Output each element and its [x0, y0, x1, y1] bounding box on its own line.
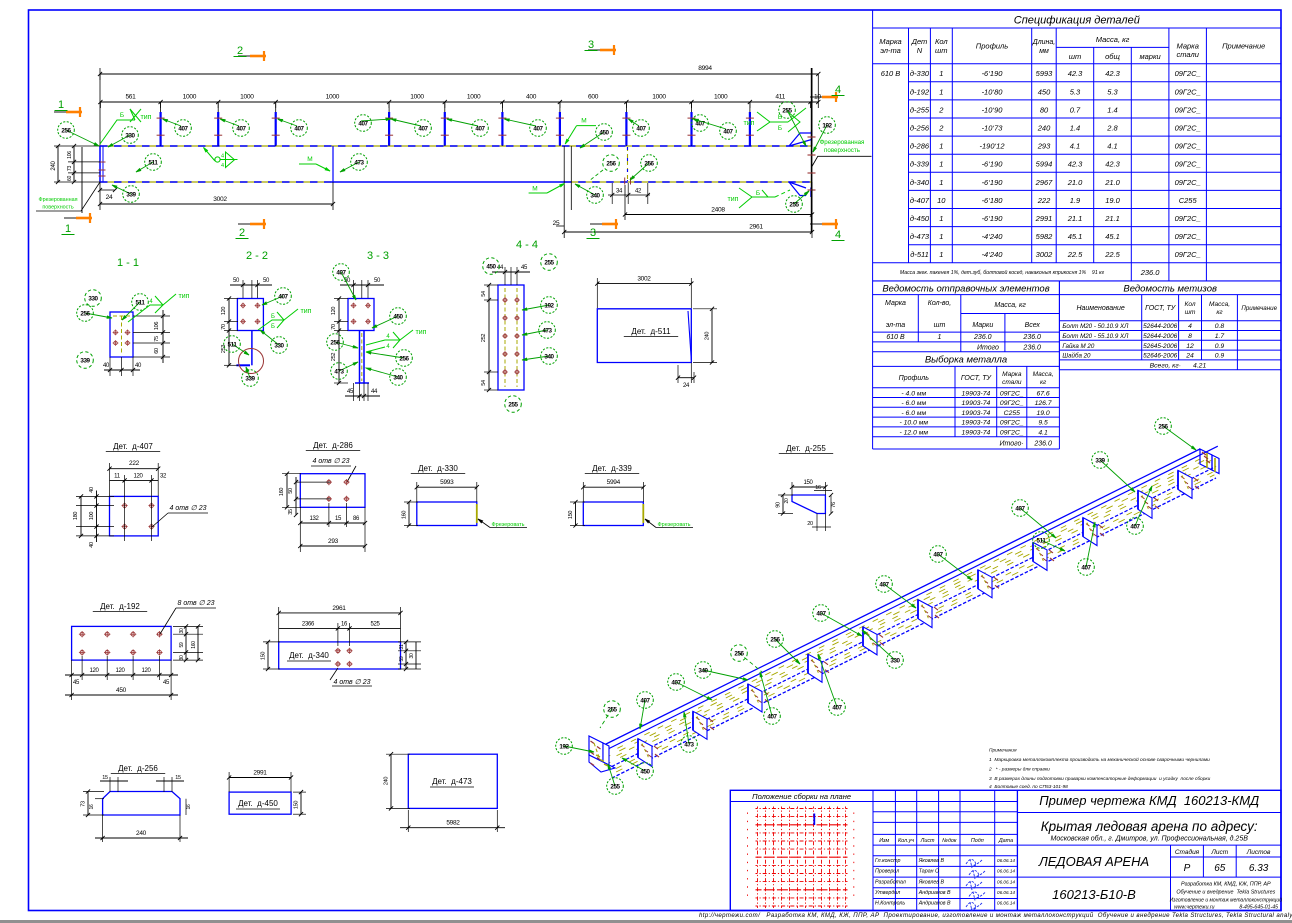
- detail д-450 plate: [229, 792, 291, 814]
- svg-text:Таран О: Таран О: [919, 869, 939, 875]
- svg-text:42.3: 42.3: [1105, 160, 1120, 169]
- dimension 2408: [625, 214, 812, 216]
- signatures scribbles: [966, 859, 982, 868]
- svg-text:236.0: 236.0: [1022, 344, 1041, 351]
- svg-text:600: 600: [588, 94, 599, 101]
- balloon 511 section 1-1: [122, 302, 140, 320]
- balloon 473 elevation: [340, 162, 359, 172]
- svg-text:222: 222: [1037, 196, 1051, 205]
- svg-text:Кол.уч: Кол.уч: [898, 838, 914, 844]
- section mark 3 top: [600, 49, 616, 52]
- svg-text:4: 4: [221, 163, 224, 169]
- svg-text:407: 407: [767, 713, 777, 720]
- svg-text:240: 240: [51, 160, 57, 170]
- svg-text:256: 256: [606, 160, 616, 167]
- svg-text:Дет. д-340: Дет. д-340: [289, 651, 329, 660]
- svg-text:20: 20: [784, 498, 790, 503]
- svg-text:42.3: 42.3: [1105, 69, 1120, 78]
- svg-text:160213-Б10-В: 160213-Б10-В: [1052, 887, 1136, 902]
- svg-text:21.0: 21.0: [1067, 178, 1083, 187]
- balloon 339 3D: [1100, 460, 1135, 492]
- weld symbol section 1-1: [128, 305, 163, 322]
- svg-text:09Г2С_: 09Г2С_: [1175, 250, 1201, 259]
- bolt marks on flange at stiffener: [654, 746, 658, 749]
- svg-text:Б: Б: [778, 114, 782, 121]
- svg-text:Р: Р: [1184, 863, 1191, 874]
- svg-text:5.3: 5.3: [1107, 87, 1118, 96]
- svg-text:24: 24: [683, 383, 690, 389]
- svg-text:Стадия: Стадия: [1175, 848, 1200, 856]
- svg-text:4 отв ∅ 23: 4 отв ∅ 23: [170, 505, 207, 512]
- svg-text:50: 50: [263, 278, 270, 284]
- svg-text:стали: стали: [1002, 379, 1022, 386]
- bolt marks on flange at stiffener: [1154, 498, 1158, 501]
- svg-text:52645-2006: 52645-2006: [1143, 343, 1178, 350]
- svg-text:3 - 3: 3 - 3: [367, 250, 389, 262]
- svg-text:2: 2: [237, 45, 243, 57]
- svg-text:09Г2С_: 09Г2С_: [1175, 232, 1201, 241]
- svg-text:1000: 1000: [240, 94, 254, 101]
- svg-text:73: 73: [67, 166, 73, 172]
- balloon 256 elevation: [630, 163, 649, 180]
- bolt marks on flange at stiffener: [994, 577, 998, 580]
- svg-text:42.3: 42.3: [1068, 69, 1083, 78]
- svg-text:16: 16: [186, 804, 192, 809]
- svg-text:3 В размерах длины подготовки: 3 В размерах длины подготовки приварки к…: [989, 776, 1211, 782]
- bolt marks on flange at stiffener: [709, 719, 713, 722]
- svg-text:450: 450: [1038, 87, 1051, 96]
- svg-text:1.9: 1.9: [1070, 196, 1081, 205]
- svg-text:Б: Б: [271, 314, 275, 320]
- svg-text:561: 561: [125, 94, 136, 101]
- svg-text:4.1: 4.1: [1107, 142, 1117, 151]
- svg-text:5994: 5994: [607, 479, 621, 486]
- balloon 407 3D: [640, 700, 645, 729]
- svg-text:9.5: 9.5: [1038, 420, 1048, 427]
- svg-text:255: 255: [607, 706, 617, 713]
- svg-text:610 В: 610 В: [886, 334, 905, 341]
- table: Выборка металла: [873, 352, 1060, 449]
- balloon 256 3D: [739, 653, 762, 672]
- balloon 473 section 4-4: [522, 330, 547, 335]
- svg-text:44: 44: [497, 265, 504, 271]
- svg-text:4.1: 4.1: [1070, 142, 1080, 151]
- balloon 256 dashed elevation: [589, 170, 603, 181]
- svg-text:255: 255: [789, 201, 799, 208]
- svg-text:31: 31: [399, 644, 405, 649]
- svg-text:стали: стали: [1176, 50, 1199, 59]
- svg-text:192: 192: [544, 302, 554, 309]
- svg-text:М: М: [307, 156, 312, 163]
- svg-text:ГОСТ, ТУ: ГОСТ, ТУ: [961, 375, 993, 382]
- svg-text:Фрезерованная: Фрезерованная: [820, 139, 865, 146]
- svg-text:256: 256: [644, 160, 654, 167]
- bolt circle scribble section 2-2: [239, 349, 264, 374]
- svg-text:407: 407: [533, 125, 543, 132]
- svg-text:22.5: 22.5: [1104, 250, 1120, 259]
- svg-text:Выборка металла: Выборка металла: [925, 355, 1007, 366]
- dimension 34-42: [608, 194, 650, 196]
- svg-text:293: 293: [1037, 142, 1051, 151]
- svg-text:132: 132: [309, 516, 319, 522]
- svg-text:330: 330: [890, 657, 900, 664]
- svg-text:Длина,: Длина,: [1032, 39, 1056, 46]
- svg-text:Дет. д-339: Дет. д-339: [592, 464, 632, 473]
- svg-text:473: 473: [542, 327, 552, 334]
- svg-text:тип: тип: [179, 293, 190, 300]
- svg-text:253: 253: [221, 345, 227, 354]
- svg-text:Марка: Марка: [1002, 371, 1022, 378]
- svg-text:- 10.0 мм: - 10.0 мм: [900, 420, 929, 427]
- svg-text:5994: 5994: [1036, 160, 1053, 169]
- svg-text:50: 50: [288, 488, 294, 494]
- svg-text:Дет: Дет: [911, 37, 928, 46]
- svg-text:525: 525: [370, 622, 380, 628]
- svg-text:52644-2006: 52644-2006: [1143, 333, 1178, 340]
- svg-text:65: 65: [1214, 863, 1226, 874]
- svg-text:407: 407: [178, 125, 188, 132]
- bolt marks on flange at stiffener: [1049, 550, 1053, 553]
- svg-text:340: 340: [698, 667, 708, 674]
- balloon 255 3D: [608, 764, 615, 786]
- svg-text:5982: 5982: [1036, 232, 1054, 241]
- svg-text:0.9: 0.9: [1215, 343, 1225, 350]
- svg-text:160: 160: [191, 641, 197, 649]
- svg-text:Проверил: Проверил: [875, 869, 899, 875]
- svg-text:180: 180: [73, 512, 79, 521]
- svg-text:Гайка М 20: Гайка М 20: [1062, 343, 1094, 350]
- svg-text:1: 1: [58, 99, 64, 111]
- svg-text:Масса, кг: Масса, кг: [1096, 35, 1130, 44]
- svg-text:Московская обл., г. Дмитров, у: Московская обл., г. Дмитров, ул. Професс…: [1050, 835, 1248, 843]
- svg-text:Андрианов В: Андрианов В: [918, 890, 951, 896]
- svg-text:д-473: д-473: [910, 232, 930, 241]
- svg-text:-4‘240: -4‘240: [982, 250, 1004, 259]
- svg-text:09Г2С_: 09Г2С_: [1000, 420, 1024, 427]
- title block stage-sheet cells: [1017, 845, 1281, 910]
- svg-text:44: 44: [371, 389, 378, 395]
- svg-text:Дет. д-407: Дет. д-407: [113, 442, 153, 451]
- 3D stiffener plates: [638, 739, 652, 767]
- svg-text:Фрезерованная: Фрезерованная: [38, 197, 77, 203]
- svg-text:450: 450: [393, 313, 403, 320]
- section mark 3 bottom: [602, 223, 618, 226]
- bolt marks on flange at stiffener: [824, 662, 828, 665]
- balloon 407 3D: [1086, 522, 1095, 567]
- svg-text:2.8: 2.8: [1106, 124, 1118, 133]
- svg-text:120: 120: [89, 668, 99, 674]
- svg-text:09Г2С_: 09Г2С_: [1175, 178, 1201, 187]
- svg-text:236.0: 236.0: [973, 334, 992, 341]
- right end gussets д-255: [789, 133, 812, 146]
- svg-text:222: 222: [129, 460, 140, 467]
- svg-text:шт: шт: [1069, 52, 1081, 61]
- marker M below cut 3-3: [529, 192, 547, 194]
- svg-text:1: 1: [939, 214, 943, 223]
- svg-text:19903-74: 19903-74: [962, 410, 991, 417]
- section mark 1 bottom: [76, 217, 92, 220]
- balloon 407 3D: [821, 613, 862, 636]
- svg-text:256: 256: [80, 310, 90, 317]
- svg-text:Масса,: Масса,: [1033, 371, 1054, 378]
- svg-text:339: 339: [126, 191, 136, 198]
- weld symbol тип Б-Б right: [757, 122, 788, 131]
- balloon 450 section 4-4: [483, 258, 500, 275]
- stiffeners above flange: [160, 102, 162, 146]
- svg-text:Разработал: Разработал: [875, 879, 906, 885]
- svg-text:473: 473: [354, 159, 364, 166]
- svg-text:8-495-645-01-45: 8-495-645-01-45: [1239, 905, 1278, 911]
- svg-text:45: 45: [521, 265, 528, 271]
- svg-text:5.3: 5.3: [1070, 87, 1081, 96]
- svg-text:Ведомость метизов: Ведомость метизов: [1123, 284, 1217, 295]
- svg-text:150: 150: [261, 652, 267, 661]
- svg-text:1.4: 1.4: [1107, 105, 1117, 114]
- svg-text:Изм: Изм: [879, 838, 889, 844]
- svg-text:407: 407: [636, 125, 646, 132]
- beam bottom flange line: [100, 181, 331, 183]
- svg-text:450: 450: [599, 129, 609, 136]
- svg-text:407: 407: [933, 551, 943, 558]
- weld symbol тип Б bottom right: [739, 197, 775, 208]
- section mark 2 bottom: [250, 223, 266, 226]
- svg-text:Примечания: Примечания: [989, 748, 1017, 754]
- svg-text:240: 240: [136, 830, 147, 837]
- svg-text:1: 1: [939, 250, 943, 259]
- svg-text:339: 339: [1095, 457, 1105, 464]
- svg-text:2366: 2366: [302, 622, 315, 628]
- dimension chain 561..1000..411-10: [100, 101, 818, 103]
- svg-text:д-340: д-340: [910, 178, 930, 187]
- svg-text:8: 8: [1188, 333, 1192, 340]
- svg-text:407: 407: [236, 125, 246, 132]
- svg-text:Б: Б: [778, 125, 782, 132]
- balloon 407 section 2-2: [262, 296, 283, 305]
- svg-text:256: 256: [61, 127, 71, 134]
- svg-text:24: 24: [106, 194, 113, 201]
- svg-text:150: 150: [568, 511, 574, 520]
- balloon 255 bottom right elevation: [794, 191, 809, 204]
- svg-text:90: 90: [776, 502, 782, 508]
- svg-text:эл-та: эл-та: [880, 46, 901, 55]
- svg-text:60: 60: [67, 176, 73, 182]
- svg-text:25: 25: [553, 220, 560, 227]
- svg-text:-190‘12: -190‘12: [979, 142, 1005, 151]
- marker M at web joint: [299, 163, 316, 165]
- 3D beam flange edges: [598, 449, 1200, 748]
- svg-text:Шайба 20: Шайба 20: [1062, 353, 1091, 360]
- svg-text:1000: 1000: [326, 94, 340, 101]
- svg-text:40: 40: [135, 363, 142, 369]
- svg-text:610 В: 610 В: [881, 69, 901, 78]
- svg-text:Болт М20 - 50.10.9 ХЛ: Болт М20 - 50.10.9 ХЛ: [1062, 323, 1129, 330]
- svg-text:40: 40: [103, 363, 110, 369]
- svg-text:кг: кг: [1216, 309, 1223, 316]
- svg-text:240: 240: [384, 777, 390, 786]
- balloon 339 section 2-2: [246, 367, 250, 378]
- balloon 407 elevation: [694, 119, 699, 121]
- balloon 407 3D: [1135, 486, 1152, 526]
- svg-text:4: 4: [835, 84, 841, 96]
- svg-text:09Г2С_: 09Г2С_: [1000, 430, 1024, 437]
- svg-text:407: 407: [418, 125, 428, 132]
- svg-text:тип: тип: [728, 196, 739, 203]
- svg-text:4 отв ∅ 23: 4 отв ∅ 23: [313, 458, 350, 465]
- svg-text:236.0: 236.0: [1033, 441, 1052, 448]
- balloon 256b section 3-3: [366, 352, 404, 358]
- section mark 4 bottom: [822, 223, 838, 226]
- svg-text:htp://чертежи.com/ Разработк: htp://чертежи.com/ Разработка КМ, КМД, К…: [699, 912, 1292, 919]
- svg-text:21.1: 21.1: [1067, 214, 1083, 223]
- balloon 511 3D: [1041, 540, 1065, 551]
- svg-text:67.6: 67.6: [1036, 390, 1049, 397]
- balloon 473 section 3-3: [339, 362, 358, 371]
- svg-text:42.3: 42.3: [1068, 160, 1083, 169]
- svg-text:Масса, кг: Масса, кг: [994, 302, 1026, 309]
- svg-text:- 12.0 мм: - 12.0 мм: [900, 430, 929, 437]
- svg-text:40: 40: [89, 487, 95, 493]
- svg-text:256: 256: [399, 355, 409, 362]
- svg-text:09Г2С_: 09Г2С_: [1175, 142, 1201, 151]
- svg-text:330: 330: [274, 342, 284, 349]
- svg-text:09Г2С_: 09Г2С_: [1175, 87, 1201, 96]
- svg-text:0.9: 0.9: [1215, 353, 1225, 360]
- svg-text:06.06.14: 06.06.14: [997, 858, 1015, 863]
- svg-text:Масса зкек. пакенея 1%, дет.зу: Масса зкек. пакенея 1%, дет.зуб, болтово…: [900, 269, 1105, 276]
- section mark 1 top: [66, 111, 82, 114]
- svg-text:Профиль: Профиль: [899, 375, 930, 382]
- svg-text:Положение сборки на плане: Положение сборки на плане: [752, 792, 851, 801]
- balloon 407 elevation: [163, 119, 181, 126]
- balloon 407 elevation: [220, 119, 239, 126]
- weld symbol section 3-3: [366, 340, 400, 345]
- 3D beam right end: [1200, 449, 1212, 470]
- svg-text:12: 12: [1186, 343, 1194, 350]
- svg-text:тип: тип: [141, 114, 152, 121]
- svg-text:5982: 5982: [446, 820, 460, 827]
- svg-text:06.06.14: 06.06.14: [997, 890, 1015, 895]
- svg-text:120: 120: [331, 307, 337, 316]
- svg-text:340: 340: [393, 374, 403, 381]
- beam top flange line: [100, 145, 812, 147]
- svg-text:Изготовление и монтаж металлок: Изготовление и монтаж металлоконструкций: [1170, 897, 1283, 904]
- svg-text:100: 100: [89, 512, 95, 521]
- balloon 256 3D: [775, 639, 800, 664]
- svg-text:255: 255: [782, 107, 792, 114]
- svg-text:4: 4: [1188, 323, 1192, 330]
- svg-text:19903-74: 19903-74: [962, 390, 991, 397]
- svg-text:д-450: д-450: [910, 214, 930, 223]
- svg-text:N: N: [917, 46, 923, 55]
- svg-text:Дет. д-286: Дет. д-286: [313, 441, 353, 450]
- svg-text:шт: шт: [934, 322, 946, 329]
- svg-text:16: 16: [815, 485, 821, 491]
- svg-text:255: 255: [544, 259, 554, 266]
- svg-text:45: 45: [73, 680, 80, 686]
- svg-text:ЛЕДОВАЯ АРЕНА: ЛЕДОВАЯ АРЕНА: [1038, 854, 1149, 869]
- balloon 450 section 3-3: [372, 316, 398, 328]
- svg-text:120: 120: [133, 474, 143, 480]
- svg-text:3002: 3002: [1036, 250, 1054, 259]
- svg-text:тип: тип: [301, 308, 312, 315]
- balloon 192 3D: [564, 746, 594, 752]
- balloon 256 section 1-1: [85, 313, 112, 318]
- svg-text:3002: 3002: [213, 196, 227, 203]
- svg-text:339: 339: [80, 357, 90, 364]
- svg-text:160: 160: [402, 511, 408, 520]
- svg-text:2 - 2: 2 - 2: [246, 250, 268, 262]
- balloon 339 elevation: [112, 185, 131, 194]
- svg-text:Итого·: Итого·: [1000, 441, 1024, 448]
- svg-text:Марка: Марка: [885, 300, 906, 307]
- svg-text:3002: 3002: [637, 276, 651, 283]
- svg-text:Наименование: Наименование: [1076, 305, 1124, 312]
- svg-text:511: 511: [1037, 537, 1047, 544]
- svg-text:Разработка КМ, КМД, КЖ, ППР, А: Разработка КМ, КМД, КЖ, ППР, АР: [1181, 882, 1271, 888]
- bolt marks on flange at stiffener: [764, 692, 768, 695]
- svg-text:№док: №док: [942, 838, 957, 844]
- svg-text:11: 11: [114, 474, 121, 480]
- svg-text:09Г2С_: 09Г2С_: [1175, 160, 1201, 169]
- svg-text:Примечание: Примечание: [1222, 41, 1265, 50]
- balloon 407 elevation: [694, 119, 727, 129]
- svg-text:06.06.14: 06.06.14: [997, 901, 1015, 906]
- 3D beam left end plate: [589, 736, 603, 762]
- svg-text:2991: 2991: [253, 770, 267, 777]
- svg-text:192: 192: [559, 743, 569, 750]
- svg-text:407: 407: [294, 125, 304, 132]
- svg-text:Ведомость отправочных элементо: Ведомость отправочных элементов: [882, 284, 1049, 295]
- balloon 255 top right elevation: [787, 110, 806, 146]
- balloon 511 elevation: [136, 162, 153, 172]
- table: Ведомость метизов: [1059, 281, 1281, 370]
- svg-text:Дет. д-511: Дет. д-511: [631, 327, 671, 336]
- bolt marks on flange at stiffener: [1099, 525, 1103, 528]
- svg-text:19.0: 19.0: [1105, 196, 1120, 205]
- svg-text:Дет. д-256: Дет. д-256: [118, 764, 158, 773]
- svg-text:Б: Б: [120, 112, 124, 119]
- svg-text:М: М: [581, 118, 586, 125]
- svg-text:1: 1: [939, 178, 943, 187]
- svg-text:-6‘180: -6‘180: [982, 196, 1004, 205]
- svg-text:09Г2С_: 09Г2С_: [1175, 69, 1201, 78]
- svg-text:3: 3: [588, 39, 594, 51]
- svg-text:1000: 1000: [410, 94, 424, 101]
- section mark 4 top: [822, 96, 838, 99]
- svg-text:252: 252: [481, 334, 487, 343]
- svg-text:192: 192: [822, 122, 832, 129]
- svg-text:340: 340: [590, 192, 600, 199]
- svg-text:407: 407: [336, 269, 346, 276]
- svg-text:1000: 1000: [183, 94, 197, 101]
- balloon 407 elevation: [391, 119, 421, 126]
- svg-text:С255: С255: [1004, 410, 1020, 417]
- svg-text:Лист: Лист: [1210, 849, 1228, 856]
- svg-text:80: 80: [1040, 105, 1049, 114]
- svg-text:ГОСТ, ТУ: ГОСТ, ТУ: [1145, 305, 1177, 312]
- svg-text:д-192: д-192: [910, 87, 930, 96]
- svg-text:поверхность: поверхность: [824, 147, 860, 154]
- svg-text:106: 106: [154, 322, 160, 331]
- dimension 8994 overall: [100, 73, 818, 75]
- svg-text:д-255: д-255: [910, 105, 930, 114]
- svg-text:Андрианов В: Андрианов В: [918, 901, 951, 907]
- svg-text:54: 54: [481, 380, 487, 386]
- balloon 407 3D: [760, 672, 772, 716]
- balloon 330 3D: [862, 630, 895, 660]
- svg-text:473: 473: [334, 368, 344, 375]
- svg-text:поверхность: поверхность: [42, 205, 73, 211]
